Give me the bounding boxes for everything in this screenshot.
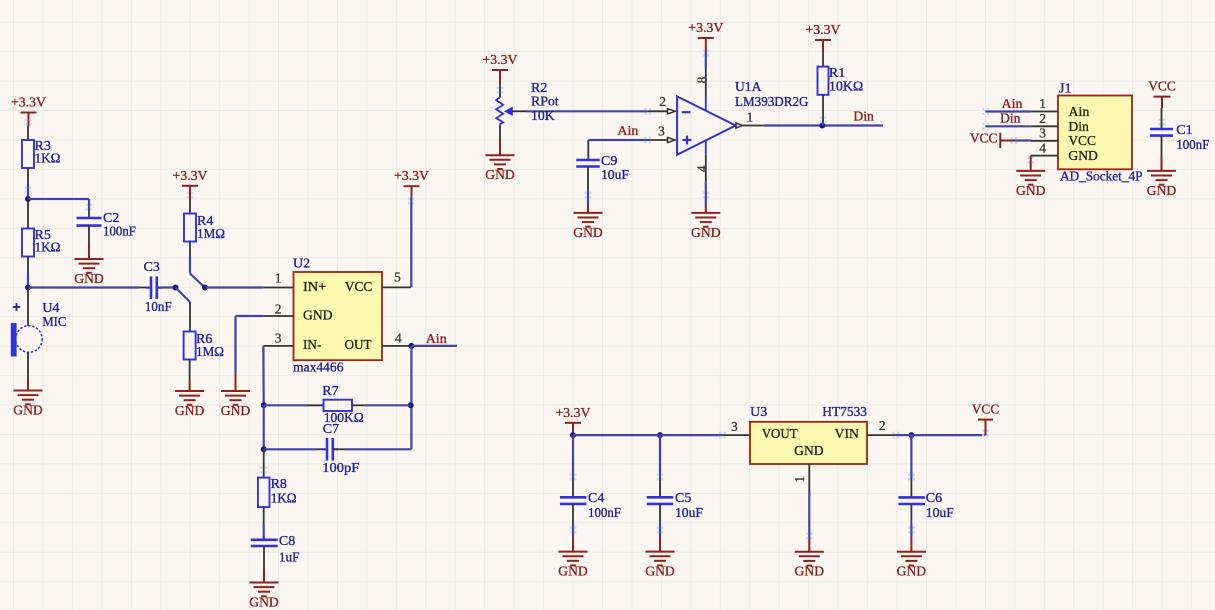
svg-text:1uF: 1uF	[279, 551, 300, 566]
svg-text:4: 4	[694, 165, 709, 172]
svg-text:J1: J1	[1059, 82, 1071, 97]
svg-text:10uF: 10uF	[675, 506, 703, 521]
svg-text:GND: GND	[795, 565, 825, 580]
svg-text:R8: R8	[271, 477, 287, 492]
svg-text:3: 3	[731, 419, 738, 434]
svg-text:R7: R7	[322, 384, 338, 399]
svg-text:+3.3V: +3.3V	[556, 406, 591, 421]
svg-text:1: 1	[747, 109, 754, 124]
svg-text:U1A: U1A	[735, 80, 762, 95]
svg-text:5: 5	[394, 270, 401, 285]
svg-text:10uF: 10uF	[601, 168, 629, 183]
svg-text:10KΩ: 10KΩ	[829, 80, 863, 95]
svg-text:GND: GND	[691, 226, 721, 241]
svg-text:2: 2	[1039, 111, 1046, 126]
svg-text:GND: GND	[1147, 184, 1177, 199]
svg-text:1MΩ: 1MΩ	[196, 345, 224, 360]
svg-text:IN+: IN+	[303, 280, 326, 295]
svg-text:Din: Din	[1000, 112, 1021, 127]
svg-text:1MΩ: 1MΩ	[197, 227, 225, 242]
svg-text:C1: C1	[1176, 123, 1192, 138]
svg-text:OUT: OUT	[345, 338, 373, 353]
svg-text:+3.3V: +3.3V	[11, 96, 46, 111]
svg-text:VCC: VCC	[970, 131, 998, 146]
svg-text:Ain: Ain	[426, 332, 447, 347]
svg-text:AD_Socket_4P: AD_Socket_4P	[1060, 170, 1143, 185]
svg-text:VCC: VCC	[1148, 80, 1176, 95]
svg-text:3: 3	[658, 124, 665, 139]
svg-text:U2: U2	[293, 257, 310, 272]
svg-text:100nF: 100nF	[588, 506, 621, 521]
svg-text:LM393DR2G: LM393DR2G	[735, 95, 809, 110]
svg-text:100nF: 100nF	[1176, 138, 1209, 153]
svg-text:C5: C5	[675, 491, 691, 506]
svg-text:10uF: 10uF	[926, 506, 954, 521]
svg-text:IN-: IN-	[303, 338, 322, 353]
svg-text:8: 8	[694, 76, 709, 83]
svg-text:MIC: MIC	[42, 315, 66, 330]
svg-text:C3: C3	[144, 260, 160, 275]
svg-text:VOUT: VOUT	[762, 427, 798, 442]
svg-text:GND: GND	[221, 404, 251, 419]
svg-text:C8: C8	[279, 534, 295, 549]
svg-text:1KΩ: 1KΩ	[271, 491, 297, 506]
svg-text:GND: GND	[74, 272, 104, 287]
svg-text:GND: GND	[175, 404, 205, 419]
svg-text:10K: 10K	[531, 109, 555, 124]
svg-text:GND: GND	[794, 444, 824, 459]
svg-text:1KΩ: 1KΩ	[35, 240, 61, 255]
svg-text:C6: C6	[926, 491, 942, 506]
svg-text:GND: GND	[303, 308, 333, 323]
svg-text:2: 2	[879, 418, 886, 433]
svg-text:+3.3V: +3.3V	[394, 169, 429, 184]
svg-text:100pF: 100pF	[322, 461, 359, 476]
svg-text:2: 2	[659, 94, 666, 109]
svg-text:Din: Din	[1068, 120, 1089, 135]
svg-text:Ain: Ain	[1002, 97, 1023, 112]
svg-text:1: 1	[792, 476, 807, 483]
svg-text:1: 1	[1039, 96, 1046, 111]
svg-text:GND: GND	[485, 168, 515, 183]
svg-text:VIN: VIN	[835, 427, 860, 442]
svg-text:1KΩ: 1KΩ	[35, 151, 61, 166]
svg-text:Din: Din	[853, 110, 874, 125]
svg-text:3: 3	[275, 330, 282, 345]
svg-text:VCC: VCC	[345, 280, 373, 295]
svg-text:100nF: 100nF	[103, 224, 136, 239]
svg-text:+3.3V: +3.3V	[806, 23, 841, 38]
svg-text:C9: C9	[601, 154, 617, 169]
svg-text:+3.3V: +3.3V	[483, 53, 518, 68]
svg-text:GND: GND	[1068, 149, 1098, 164]
svg-text:Ain: Ain	[617, 124, 638, 139]
svg-text:GND: GND	[897, 565, 927, 580]
svg-text:GND: GND	[645, 565, 675, 580]
svg-text:4: 4	[1039, 140, 1046, 155]
svg-text:GND: GND	[1016, 184, 1046, 199]
svg-text:Ain: Ain	[1068, 105, 1089, 120]
svg-text:+3.3V: +3.3V	[173, 169, 208, 184]
svg-text:3: 3	[1039, 126, 1046, 141]
svg-text:GND: GND	[558, 565, 588, 580]
svg-text:VCC: VCC	[1068, 134, 1096, 149]
svg-text:C7: C7	[323, 422, 339, 437]
svg-text:+3.3V: +3.3V	[688, 21, 723, 36]
svg-text:max4466: max4466	[293, 360, 344, 375]
svg-text:2: 2	[275, 302, 282, 317]
svg-text:1: 1	[275, 270, 282, 285]
svg-text:GND: GND	[13, 403, 43, 418]
svg-text:RPot: RPot	[531, 95, 559, 110]
svg-text:4: 4	[395, 330, 402, 345]
svg-text:U3: U3	[750, 405, 767, 420]
svg-text:VCC: VCC	[972, 403, 1000, 418]
svg-text:10nF: 10nF	[145, 300, 172, 315]
svg-text:HT7533: HT7533	[822, 405, 867, 420]
svg-text:C4: C4	[588, 491, 604, 506]
svg-text:GND: GND	[249, 595, 279, 610]
svg-text:GND: GND	[573, 226, 603, 241]
